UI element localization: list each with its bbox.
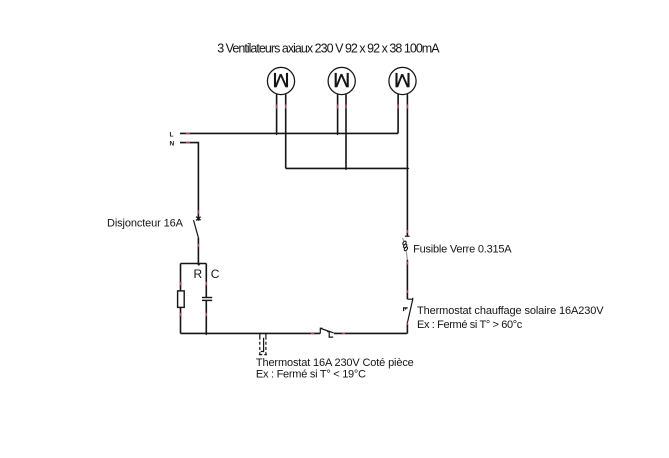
svg-text:Ex : Fermé si T° < 19°C: Ex : Fermé si T° < 19°C <box>256 368 366 380</box>
label C <box>211 267 220 281</box>
junction on N bus at M2 <box>344 168 347 170</box>
label Thermostat chauffage solaire 16A230V <box>417 305 604 317</box>
wire M3 left lead <box>397 94 399 133</box>
wire R bottom <box>180 307 182 333</box>
svg-text:Disjoncteur 16A: Disjoncteur 16A <box>107 218 184 230</box>
wire C top <box>205 264 207 298</box>
label R <box>194 267 203 281</box>
wire right drop to fuse <box>406 168 408 236</box>
junction on L bus at M2 <box>336 133 339 135</box>
label Ex Ferme si T inferieur 19C <box>256 368 366 380</box>
fuse F1 <box>402 236 409 260</box>
motor M2 <box>328 67 355 94</box>
wire C bottom <box>205 300 207 333</box>
svg-text:C: C <box>211 267 220 281</box>
pin marks (red connection points) <box>181 105 408 334</box>
wire R top <box>180 264 182 291</box>
wire N bus <box>286 167 408 169</box>
wire M2 left lead <box>337 94 339 133</box>
wire T2 to bottom bus <box>406 324 408 334</box>
thermostat T1 sensor dashed box <box>259 333 267 354</box>
capacitor C <box>202 298 212 301</box>
breaker Q1 blade <box>194 220 199 238</box>
junction arrow at RC node <box>197 263 201 266</box>
wire M3 right lead <box>406 94 408 168</box>
motor M3 <box>389 67 416 94</box>
wire bottom bus right <box>334 332 407 334</box>
label Ex Ferme si T superieur 60c <box>417 319 523 331</box>
junction on L bus at M1 <box>275 133 278 135</box>
wire breaker to RC node <box>197 238 199 264</box>
wire N feed <box>180 143 198 221</box>
wire M1 left lead <box>276 94 278 133</box>
wire bottom bus left <box>181 332 321 334</box>
thermostat T2 switch <box>404 298 413 324</box>
svg-text:Thermostat chauffage solaire 1: Thermostat chauffage solaire 16A230V <box>417 305 604 317</box>
svg-text:Fusible Verre 0.315A: Fusible Verre 0.315A <box>413 243 512 255</box>
wire RC top <box>181 263 207 265</box>
title label <box>217 41 440 55</box>
label Fusible Verre 0.315A <box>413 243 512 255</box>
label Disjoncteur 16A <box>107 218 184 230</box>
resistor R <box>178 291 185 308</box>
svg-text:Thermostat 16A 230V Coté pièce: Thermostat 16A 230V Coté pièce <box>256 357 414 369</box>
breaker Q1 contact cross <box>196 217 201 221</box>
wire M1 right lead <box>285 94 287 168</box>
svg-text:N: N <box>170 140 175 147</box>
thermostat T1 switch <box>320 328 333 337</box>
wire fuse to thermostat T2 <box>406 260 408 299</box>
svg-text:Ex : Fermé si T° > 60°c: Ex : Fermé si T° > 60°c <box>417 319 523 331</box>
svg-text:3 Ventilateurs axiaux 230 V 92: 3 Ventilateurs axiaux 230 V 92 x 92 x 38… <box>217 41 440 55</box>
node L label <box>170 131 174 138</box>
wire L bus <box>180 132 398 134</box>
wire M2 right lead <box>345 94 347 168</box>
label Thermostat 16A 230V Cote piece <box>256 357 414 369</box>
motor M1 <box>267 67 294 94</box>
svg-text:R: R <box>194 267 203 281</box>
svg-text:L: L <box>170 131 174 138</box>
node N label <box>170 140 175 147</box>
junction on N bus at M3 <box>407 167 409 170</box>
junction bottom bus at C <box>205 333 208 335</box>
